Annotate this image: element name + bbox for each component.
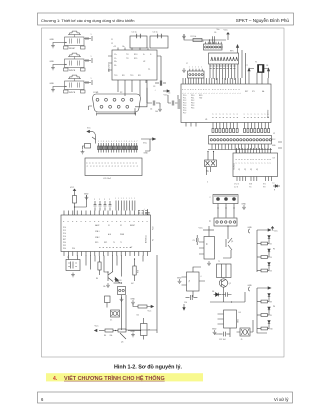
ground (button row 2)	[51, 66, 55, 70]
svg-text:1: 1	[217, 93, 219, 94]
transistor Q4 (backlight)	[87, 128, 96, 144]
resistor R16	[73, 193, 77, 207]
op-amp U2 MAX232	[108, 48, 158, 84]
svg-text:1: 1	[206, 93, 208, 94]
svg-text:VCC: VCC	[224, 30, 229, 32]
diode D8	[212, 291, 222, 296]
connector LCD pins (16)	[98, 143, 138, 153]
jumper JP1	[205, 160, 217, 167]
connector P1 DB9 (COM)	[93, 92, 141, 114]
wire switch SW2 to terminal	[84, 59, 91, 62]
op-amp U3 74LS373 (latch)	[233, 148, 278, 181]
resistor R18	[133, 259, 138, 281]
bus stub grid under RP1	[210, 66, 236, 69]
op-amp U7 AT89C51 (second MCU)	[61, 211, 151, 257]
svg-text:C7: C7	[246, 65, 248, 67]
wire bus J2 to U3	[208, 150, 272, 154]
wire cap to VCC	[227, 37, 229, 41]
transformer T1	[217, 261, 232, 278]
svg-text:T0: T0	[113, 242, 115, 244]
crystal Y1	[255, 62, 264, 73]
svg-text:P6: P6	[273, 306, 275, 308]
svg-text:P: P	[81, 221, 83, 222]
svg-text:P: P	[231, 89, 233, 90]
svg-text:4.: 4.	[53, 376, 58, 382]
pushbutton SW3	[64, 75, 86, 94]
LED D1	[273, 183, 281, 192]
wire relay up	[208, 226, 210, 237]
svg-text:J1: J1	[202, 41, 204, 43]
svg-text:P3.4: P3.4	[191, 105, 194, 107]
svg-text:C5: C5	[168, 93, 170, 95]
svg-text:P: P	[143, 221, 145, 222]
svg-text:SW-PB: SW-PB	[69, 70, 76, 72]
svg-text:B: B	[106, 166, 108, 167]
svg-text:B: B	[93, 166, 95, 167]
svg-text:GND: GND	[212, 328, 217, 330]
ground (U4)	[212, 328, 217, 334]
svg-text:RST: RST	[245, 91, 248, 93]
svg-text:VS+: VS+	[114, 61, 117, 63]
svg-text:P: P	[125, 221, 127, 222]
svg-text:RESET: RESET	[130, 225, 135, 227]
node left chain junction	[113, 330, 118, 331]
connector pad row (U1 bottom)	[212, 129, 270, 133]
svg-text:1: 1	[91, 34, 92, 36]
label GND row 2	[50, 61, 55, 63]
label U7 right side nets	[153, 227, 155, 241]
label LCD pin numbers	[98, 141, 137, 143]
svg-text:5: 5	[131, 141, 132, 143]
svg-text:P3.0: P3.0	[63, 242, 66, 244]
label GND row 1	[50, 39, 55, 41]
pushbutton SW2	[64, 53, 86, 72]
svg-text:Q2: Q2	[229, 283, 231, 285]
wire JP1 up	[207, 151, 214, 160]
ground (relay)	[207, 261, 211, 265]
svg-text:COM1: COM1	[93, 92, 98, 94]
svg-text:B: B	[121, 166, 123, 167]
capacitor C10	[184, 295, 197, 304]
wire under U7 assorted	[86, 256, 143, 277]
ground (opto)	[177, 277, 182, 283]
svg-text:1: 1	[240, 93, 242, 94]
svg-text:C3: C3	[153, 86, 155, 88]
svg-text:P1.4: P1.4	[183, 105, 186, 107]
svg-text:1: 1	[190, 93, 192, 94]
transistor Q2	[219, 279, 231, 287]
svg-text:GND: GND	[130, 331, 135, 333]
svg-text:P1.0: P1.0	[63, 227, 66, 229]
svg-text:P: P	[116, 221, 118, 222]
connector J3 (LED header)	[210, 195, 239, 204]
svg-text:9 8: 9 8	[263, 187, 265, 189]
svg-text:1: 1	[232, 93, 234, 94]
svg-text:R10: R10	[270, 329, 273, 331]
wire COM shell stubs	[97, 113, 136, 116]
svg-text:XTL: XTL	[252, 91, 255, 93]
svg-text:P: P	[134, 221, 136, 222]
svg-text:P: P	[220, 89, 222, 90]
svg-text:1: 1	[183, 93, 185, 94]
svg-text:2: 2	[210, 197, 211, 199]
svg-text:C10: C10	[184, 302, 187, 304]
svg-text:P1.1: P1.1	[183, 98, 186, 100]
svg-text:P: P	[236, 89, 238, 90]
svg-text:4k7: 4k7	[131, 283, 134, 285]
wire Q1 down	[223, 250, 231, 258]
LCD module DISPLAY	[85, 158, 142, 180]
svg-text:B: B	[109, 166, 111, 167]
ground (C4)	[158, 107, 162, 111]
capacitor C13 (polarized)	[141, 318, 150, 340]
op-amp U1 AT89S52 (microcontroller)	[178, 78, 272, 129]
svg-text:C8: C8	[266, 65, 268, 67]
svg-text:MAX232: MAX232	[108, 63, 111, 72]
wire fuse	[237, 320, 254, 332]
svg-text:U3: U3	[273, 158, 275, 160]
svg-text:B: B	[97, 166, 99, 167]
label JP1	[205, 170, 209, 184]
page footer box	[38, 392, 293, 403]
svg-text:12: 12	[111, 43, 113, 45]
svg-text:U4: U4	[239, 312, 241, 314]
label GND row 3	[50, 83, 55, 85]
svg-text:P: P	[209, 89, 211, 90]
svg-text:P: P	[138, 221, 140, 222]
ground (J7)	[182, 68, 186, 72]
capacitor C11	[222, 292, 232, 297]
svg-text:P: P	[77, 221, 79, 222]
svg-text:P: P	[68, 221, 70, 222]
connector J6 (small)	[118, 287, 126, 295]
svg-text:P1.2: P1.2	[183, 100, 186, 102]
svg-text:LCD 16x2: LCD 16x2	[103, 178, 111, 180]
svg-text:T1: T1	[218, 261, 220, 263]
LED ladder 2 (diodes D5-D7, resistors R5-R7)	[248, 285, 273, 331]
svg-text:Q1: Q1	[231, 241, 233, 243]
capacitor C8 (xtal)	[266, 65, 270, 78]
terminal stub SW1	[91, 34, 93, 41]
svg-text:GND: GND	[50, 39, 55, 41]
wire U4 bottom	[215, 328, 231, 337]
svg-text:GND: GND	[144, 153, 149, 155]
transistor Q6	[107, 271, 113, 281]
label net P5 (right border)	[273, 249, 275, 251]
svg-text:GND: GND	[50, 83, 55, 85]
svg-text:K1: K1	[205, 243, 207, 245]
svg-text:3: 3	[230, 114, 232, 115]
svg-text:10u: 10u	[217, 29, 220, 31]
svg-text:P: P	[183, 89, 185, 90]
svg-text:U2: U2	[143, 61, 145, 63]
svg-text:1: 1	[91, 56, 92, 58]
svg-text:P: P	[94, 221, 96, 222]
svg-text:SW-PB: SW-PB	[69, 92, 76, 94]
svg-text:P: P	[239, 89, 241, 90]
svg-text:1: 1	[214, 93, 216, 94]
power arrow VCC (J4)	[199, 228, 215, 231]
svg-text:P1.3: P1.3	[183, 103, 186, 105]
crystal Y2 circuit	[66, 256, 80, 271]
svg-text:3: 3	[213, 114, 215, 115]
ground (J3)	[241, 203, 246, 209]
svg-text:2: 2	[207, 182, 208, 184]
power arrow down (opto)	[183, 304, 185, 310]
label U3 bottom pins	[234, 184, 267, 189]
ground (U7 top)	[84, 193, 89, 199]
connector J4	[210, 218, 238, 226]
svg-text:8: 8	[116, 141, 117, 143]
wire reset rail	[184, 34, 226, 40]
svg-text:B: B	[115, 166, 117, 167]
stub marks (U7 top right)	[138, 211, 147, 214]
svg-text:1: 1	[225, 93, 227, 94]
wire opto links	[193, 267, 205, 297]
svg-text:P: P	[201, 89, 203, 90]
svg-text:11: 11	[111, 39, 113, 41]
svg-text:Hình 1-2. Sơ đồ nguyên lý.: Hình 1-2. Sơ đồ nguyên lý.	[114, 365, 182, 371]
svg-text:3: 3	[216, 114, 218, 115]
capacitor C1 (charge pump loop)	[130, 32, 147, 49]
svg-text:C12 104: C12 104	[219, 339, 225, 341]
LED ladder (diodes D2-D4, resistors R2-R4)	[248, 227, 272, 273]
ground (button row 1)	[51, 44, 55, 48]
svg-text:P: P	[215, 89, 217, 90]
wire switch SW1 to terminal	[84, 37, 91, 40]
svg-text:AT89C51: AT89C51	[145, 235, 148, 243]
wire chain to cap	[128, 330, 141, 331]
svg-text:1 2 3: 1 2 3	[234, 187, 238, 189]
svg-text:X1: X1	[108, 225, 110, 227]
svg-text:P: P	[64, 221, 66, 222]
wire ladder2 bottom	[257, 330, 267, 333]
svg-text:P3.5: P3.5	[191, 108, 194, 110]
svg-text:P1.6: P1.6	[63, 236, 66, 238]
svg-text:R18: R18	[136, 270, 138, 273]
svg-text:J7: J7	[186, 63, 188, 65]
svg-text:B: B	[112, 166, 114, 167]
wire RP1 fanout to U1	[210, 64, 238, 80]
svg-text:Chương 1: Thiết kế các ứng dụn: Chương 1: Thiết kế các ứng dụng dùng vi …	[41, 18, 135, 23]
node bus junctions	[114, 258, 136, 283]
ground (reset RC)	[182, 34, 186, 38]
svg-text:P: P	[193, 89, 195, 90]
capacitor C14 (U7 corner)	[144, 209, 150, 216]
svg-text:B: B	[137, 166, 139, 167]
svg-text:P1.5: P1.5	[183, 108, 186, 110]
fuse F1	[240, 328, 250, 341]
label U2 pins top	[111, 39, 125, 48]
svg-text:P: P	[103, 221, 105, 222]
opto-isolator U5	[182, 272, 202, 291]
svg-text:P: P	[206, 89, 208, 90]
page header box	[38, 13, 294, 25]
svg-text:1: 1	[201, 93, 203, 94]
svg-text:VIẾT CHƯƠNG TRÌNH CHO HỆ THỐNG: VIẾT CHƯƠNG TRÌNH CHO HỆ THỐNG	[64, 374, 165, 382]
svg-text:GND: GND	[248, 227, 253, 229]
power arrow VCC (left chain)	[95, 326, 105, 332]
svg-text:B: B	[131, 166, 133, 167]
capacitor C5 and stub	[168, 93, 178, 106]
svg-text:B: B	[103, 166, 105, 167]
resistor R17	[98, 256, 101, 275]
svg-text:R4: R4	[104, 335, 106, 337]
resistor R15 (contrast)	[83, 144, 91, 150]
ground (left chain)	[130, 331, 135, 337]
svg-text:B: B	[87, 166, 89, 167]
svg-text:P: P	[198, 89, 200, 90]
power arrow VCC (reset)	[224, 30, 230, 37]
svg-text:Vi xử lý: Vi xử lý	[274, 397, 289, 402]
wire JP1 labels stub	[207, 167, 211, 175]
svg-text:C1 1u: C1 1u	[132, 32, 137, 34]
wire long vertical (power feed)	[126, 255, 157, 333]
svg-text:P1.2: P1.2	[63, 230, 66, 232]
wire ground to switch SW2	[53, 64, 67, 66]
svg-text:R3: R3	[270, 257, 272, 259]
svg-text:P3.0: P3.0	[191, 95, 194, 97]
svg-text:P3.3: P3.3	[191, 103, 194, 105]
svg-text:D8: D8	[212, 291, 214, 293]
ground (under U7)	[106, 283, 110, 287]
svg-text:VCC: VCC	[70, 187, 75, 189]
svg-text:P: P	[130, 221, 132, 222]
svg-text:P: P	[190, 89, 192, 90]
svg-text:2: 2	[254, 114, 256, 115]
svg-text:16v: 16v	[122, 46, 125, 48]
svg-text:B: B	[128, 166, 130, 167]
svg-text:B: B	[100, 166, 102, 167]
ground (Y2)	[71, 273, 75, 277]
svg-text:P3.2: P3.2	[191, 100, 194, 102]
svg-text:P5: P5	[273, 249, 275, 251]
node power junction	[210, 287, 245, 302]
transistor Q3	[120, 333, 126, 344]
transistor Q1	[226, 225, 233, 250]
svg-text:P: P	[234, 89, 236, 90]
power arrow VCC (U7)	[70, 187, 76, 193]
power arrow VCC (LCD)	[141, 138, 156, 151]
svg-text:GND: GND	[248, 285, 253, 287]
svg-text:R8: R8	[270, 302, 272, 304]
wire J2 fanout	[212, 144, 268, 150]
connector J1 (SIP pins)	[202, 41, 222, 50]
jumper JP2	[110, 310, 120, 322]
pushbutton SW1	[64, 31, 86, 50]
svg-text:B: B	[124, 166, 126, 167]
node reset junction	[209, 39, 210, 40]
svg-text:1: 1	[91, 78, 92, 80]
svg-text:P: P	[112, 221, 114, 222]
capacitor C9 (relay)	[193, 235, 199, 245]
label net P6 (right border)	[273, 306, 275, 308]
svg-text:+C3: +C3	[113, 46, 116, 48]
wire J1 to rails	[236, 45, 245, 78]
svg-text:P2: P2	[153, 239, 155, 241]
wire xtal to U1	[249, 69, 269, 79]
schematic sheet border	[42, 28, 285, 357]
svg-text:2 1: 2 1	[110, 320, 112, 322]
wire U2 pin to C3	[157, 56, 161, 86]
wire switch SW3 to terminal	[84, 81, 91, 84]
svg-text:J2: J2	[273, 133, 275, 135]
svg-text:4: 4	[106, 141, 107, 143]
svg-text:P3.2: P3.2	[63, 245, 66, 247]
svg-text:R1 10k: R1 10k	[191, 36, 197, 38]
svg-text:GND: GND	[50, 61, 55, 63]
svg-text:PSEN: PSEN	[120, 234, 124, 236]
svg-text:U6: U6	[137, 315, 139, 317]
svg-text:1: 1	[198, 93, 200, 94]
svg-text:7 6: 7 6	[249, 187, 251, 189]
svg-text:R9: R9	[270, 315, 272, 317]
svg-text:C1-: C1-	[114, 58, 117, 60]
svg-text:J5: J5	[241, 339, 243, 341]
svg-text:P: P	[72, 221, 74, 222]
svg-text:L1: L1	[273, 183, 275, 185]
op-amp U4 LM7805 (regulator)	[218, 310, 241, 328]
svg-text:VS-: VS-	[114, 65, 117, 67]
svg-text:INT1: INT1	[104, 242, 107, 244]
svg-text:74LS373: 74LS373	[234, 163, 236, 170]
svg-text:1: 1	[185, 93, 187, 94]
svg-text:1: 1	[193, 93, 195, 94]
capacitor C4	[147, 80, 160, 113]
svg-text:Q5: Q5	[121, 342, 123, 344]
capacitor C12	[219, 332, 230, 341]
header pins (U7 top)	[115, 198, 135, 211]
terminal stub SW3	[91, 78, 93, 85]
resistor R14	[118, 329, 126, 332]
svg-text:C6: C6	[214, 32, 216, 34]
resistor R1	[191, 36, 203, 42]
capacitor C7 (xtal)	[246, 65, 251, 78]
svg-text:3: 3	[233, 114, 235, 115]
svg-text:R4: R4	[270, 271, 272, 273]
resistor R13	[104, 329, 113, 337]
svg-text:C2 1u: C2 1u	[153, 32, 158, 34]
svg-text:P: P	[218, 89, 220, 90]
svg-text:P: P	[188, 89, 190, 90]
svg-text:P: P	[204, 89, 206, 90]
svg-text:2: 2	[258, 114, 260, 115]
svg-text:J4: J4	[210, 220, 212, 222]
svg-text:104: 104	[155, 111, 158, 113]
svg-text:P: P	[86, 221, 88, 222]
svg-text:R6: R6	[96, 278, 98, 280]
svg-text:4: 4	[129, 141, 130, 143]
svg-text:INT0: INT0	[95, 242, 98, 244]
svg-text:P3.1: P3.1	[191, 98, 194, 100]
svg-text:VCC: VCC	[95, 326, 100, 328]
connector J7 (ISP header)	[186, 63, 204, 78]
capacitor C2 (charge pump loop)	[150, 32, 168, 49]
svg-text:B: B	[118, 166, 120, 167]
wire ground to switch SW1	[53, 42, 67, 44]
capacitor bank (U7 top)	[94, 199, 112, 211]
svg-text:B: B	[134, 166, 136, 167]
svg-text:VCC: VCC	[164, 95, 169, 97]
wire JP2 verticals	[122, 295, 127, 330]
svg-text:GND: GND	[177, 277, 182, 279]
capacitor C3	[153, 81, 166, 92]
label Q6 R values	[96, 278, 134, 288]
svg-text:P3.4: P3.4	[63, 248, 66, 250]
svg-text:P1.6: P1.6	[183, 110, 186, 112]
svg-text:P: P	[196, 89, 198, 90]
svg-text:Y2: Y2	[67, 257, 69, 259]
